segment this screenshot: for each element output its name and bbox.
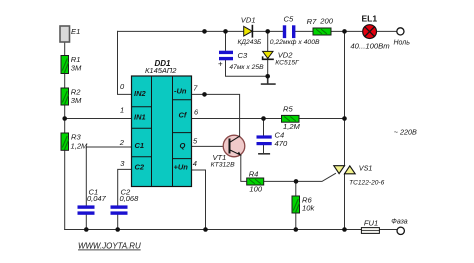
svg-text:0: 0: [120, 82, 125, 91]
svg-text:+Un: +Un: [174, 163, 189, 172]
terminal Nol: [397, 28, 404, 35]
capacitor C1: [78, 188, 107, 215]
node dot top rail C3: [223, 29, 228, 34]
node dot rail triac: [342, 227, 347, 232]
triac VS1: [334, 164, 385, 187]
svg-text:3М: 3М: [71, 64, 82, 73]
svg-text:ТС122-20-6: ТС122-20-6: [349, 179, 385, 186]
capacitor C3 electrolytic: [218, 51, 264, 71]
wire pin1 IN1 branch: [65, 118, 132, 120]
node dot R5 right: [342, 116, 347, 121]
svg-text:R3: R3: [71, 133, 81, 142]
wire emitter to R4: [241, 155, 296, 182]
svg-text:7: 7: [193, 84, 198, 93]
fuse FU1: [361, 219, 379, 234]
wire gate to triac: [296, 173, 336, 181]
terminal Faza: [397, 227, 404, 234]
resistor R5: [282, 105, 301, 131]
svg-text:E1: E1: [71, 27, 80, 36]
svg-text:5: 5: [193, 137, 198, 146]
wire VD2 stem: [267, 31, 269, 76]
node dot VD2 ground: [265, 74, 270, 79]
svg-text:К145АП2: К145АП2: [145, 66, 177, 75]
svg-text:Ноль: Ноль: [394, 40, 411, 47]
svg-text:+: +: [218, 60, 223, 69]
node dot gate/R6: [294, 179, 299, 184]
diode VD1: [238, 16, 263, 46]
capacitor C5: [270, 14, 320, 46]
svg-text:47мк х 25В: 47мк х 25В: [229, 64, 264, 71]
node dot rail C1: [84, 227, 89, 232]
capacitor C2: [111, 188, 140, 215]
resistor R4: [247, 170, 264, 194]
svg-text:Фаза: Фаза: [391, 218, 407, 225]
svg-text:C2: C2: [135, 163, 145, 172]
svg-text:WWW.JOYTA.RU: WWW.JOYTA.RU: [78, 242, 141, 251]
svg-text:R5: R5: [283, 105, 293, 114]
svg-text:1,2М: 1,2М: [283, 122, 301, 131]
wire C4 stem: [263, 119, 265, 153]
svg-text:10k: 10k: [302, 204, 315, 213]
svg-text:IN1: IN1: [134, 113, 146, 122]
svg-text:R4: R4: [249, 170, 259, 179]
svg-text:VS1: VS1: [359, 164, 373, 173]
resistor R6: [292, 196, 315, 214]
wire C3 stem: [226, 31, 268, 76]
svg-text:3М: 3М: [71, 96, 82, 105]
wire pin7 -Un to collector: [192, 94, 240, 135]
svg-text:1,2М: 1,2М: [71, 142, 89, 151]
wire pin2 to C1: [86, 147, 131, 230]
svg-text:VD1: VD1: [241, 16, 256, 25]
svg-text:4: 4: [193, 159, 197, 168]
node dot C4 branch: [261, 116, 266, 121]
node dot top rail right: [342, 29, 347, 34]
lamp EL1: [350, 13, 390, 50]
resistor R7: [307, 17, 334, 35]
node dot rail R6: [294, 227, 299, 232]
wire pin6 Cf row: [192, 118, 345, 120]
wire bottom rail: [65, 229, 397, 231]
resistor R2: [61, 88, 82, 106]
wire top rail: [118, 30, 397, 32]
node dot rail pin4: [203, 227, 208, 232]
node dot pin7 junction: [202, 92, 207, 97]
svg-text:FU1: FU1: [364, 219, 378, 228]
svg-text:100: 100: [249, 185, 262, 194]
svg-text:0,22мкф х 400В: 0,22мкф х 400В: [270, 39, 320, 46]
svg-text:R7: R7: [307, 17, 317, 26]
wire pin3 to C2: [118, 169, 132, 229]
svg-text:EL1: EL1: [362, 13, 378, 23]
svg-text:КТ312В: КТ312В: [211, 161, 235, 168]
resistor R1: [61, 55, 82, 74]
svg-text:470: 470: [275, 139, 288, 148]
svg-text:0,068: 0,068: [120, 194, 140, 203]
svg-text:-Un: -Un: [174, 87, 187, 96]
svg-text:IN2: IN2: [134, 89, 147, 98]
IC DD1 K145AP2: [132, 76, 192, 187]
ground below VD2: [262, 76, 275, 84]
node dot IN1 branch: [62, 116, 67, 121]
node dot top rail pin7: [202, 29, 207, 34]
svg-text:КД243Б: КД243Б: [238, 39, 263, 46]
svg-text:Q: Q: [180, 141, 186, 150]
svg-text:0,047: 0,047: [87, 194, 107, 203]
wire E1 sensor chain: [64, 42, 66, 230]
svg-text:3: 3: [120, 159, 125, 168]
wire right vertical 220V: [344, 31, 346, 229]
node dot rail C2: [115, 227, 120, 232]
svg-text:40...100Вт: 40...100Вт: [350, 42, 390, 51]
svg-text:C1: C1: [135, 141, 145, 150]
svg-text:VD2: VD2: [278, 51, 294, 60]
svg-text:6: 6: [194, 108, 199, 117]
svg-text:1: 1: [120, 106, 124, 115]
node dot top rail VD2/C5: [265, 29, 270, 34]
wire pin5 Q to base: [192, 145, 224, 147]
wire R6 leads: [295, 181, 297, 229]
wire pin4 +Un down: [192, 170, 206, 230]
resistor R3: [61, 133, 88, 151]
wire left vertical to pin0: [118, 31, 132, 94]
svg-text:C3: C3: [238, 51, 248, 60]
svg-text:КС515Г: КС515Г: [275, 60, 300, 67]
svg-text:~ 220В: ~ 220В: [394, 128, 417, 137]
zener diode VD2: [263, 51, 301, 67]
svg-text:C5: C5: [284, 14, 294, 23]
transistor VT1: [211, 135, 245, 168]
svg-text:200: 200: [319, 17, 333, 26]
svg-text:2: 2: [119, 138, 125, 147]
ground below C4: [259, 153, 269, 155]
sensor plate E1: [60, 26, 70, 42]
capacitor C4: [257, 130, 288, 148]
